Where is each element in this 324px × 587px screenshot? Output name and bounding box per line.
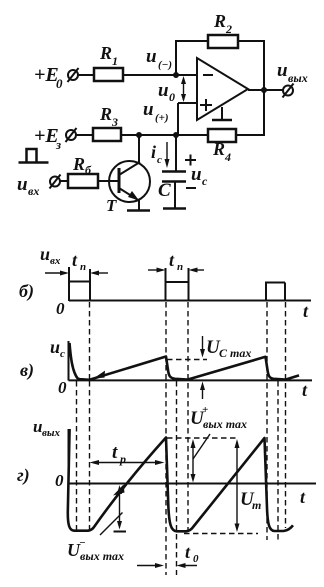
svg-text:R: R: [212, 139, 225, 159]
icon input pulse: [19, 149, 49, 163]
arrow u0 double: [181, 76, 186, 102]
dashed p2a: [165, 302, 167, 575]
wire feedback top right: [238, 40, 265, 42]
waveform uvyh: [68, 429, 293, 531]
axis v vertical: [68, 341, 70, 381]
wire base: [98, 180, 119, 182]
svg-text:m: m: [252, 498, 261, 512]
axis t v: [69, 379, 313, 381]
svg-text:4: 4: [224, 150, 231, 164]
node collector: [136, 132, 142, 138]
ground emitter: [127, 209, 150, 212]
node output: [261, 87, 267, 93]
arrow ic: [165, 142, 170, 168]
wire feedback top left: [175, 40, 208, 42]
svg-text:c: c: [157, 154, 162, 166]
wire collector vertical: [138, 135, 140, 164]
dashed p2b: [176, 381, 178, 575]
svg-text:R: R: [99, 43, 112, 63]
resistor R2: [208, 35, 238, 48]
arrow tp2 right: [189, 268, 205, 273]
dashed p3a: [266, 302, 268, 540]
wire feedback left vertical: [175, 41, 177, 75]
arrow tp1 right: [90, 271, 108, 276]
dashed p1a low: [89, 381, 91, 532]
node inverting input: [173, 72, 179, 78]
transistor emitter arrow: [128, 191, 139, 201]
dashed p1b low: [76, 381, 78, 532]
svg-text:вых: вых: [42, 427, 61, 439]
svg-text:р: р: [119, 452, 126, 466]
svg-text:c: c: [60, 348, 65, 360]
svg-text:2: 2: [225, 22, 232, 36]
svg-text:t: t: [112, 442, 118, 463]
leader Uvyhmax minus: [100, 513, 123, 536]
svg-text:u: u: [277, 60, 288, 81]
svg-text:б): б): [19, 281, 34, 302]
wire uvx terminal to Rb: [60, 180, 68, 182]
arrow Uvyhmax minus: [117, 485, 122, 530]
dashed p3c: [285, 302, 287, 528]
svg-text:(+): (+): [155, 112, 169, 124]
svg-text:в): в): [20, 360, 34, 381]
dashed p1a: [89, 302, 91, 380]
svg-text:0: 0: [58, 378, 67, 397]
svg-text:0: 0: [55, 471, 64, 490]
terminal output: [283, 84, 294, 98]
pulse 1: [68, 267, 90, 301]
op-amp U1 triangle: [197, 58, 248, 120]
arrow t0 right: [177, 563, 198, 568]
arrow tp2 left: [148, 268, 166, 273]
svg-text:вх: вх: [50, 255, 61, 267]
resistor R3: [93, 128, 121, 141]
pulse 2: [165, 268, 189, 301]
svg-text:u: u: [50, 337, 60, 357]
resistor Rb: [68, 174, 98, 188]
arrow Um: [235, 439, 240, 532]
transistor collector diagonal: [119, 162, 140, 175]
arrow tp1 left: [45, 271, 69, 276]
wire noninverting input horizontal: [178, 102, 197, 104]
svg-text:вых max: вых max: [80, 549, 124, 563]
svg-text:C: C: [158, 180, 171, 201]
terminal uvx: [50, 175, 61, 189]
wire bottom row: [121, 134, 208, 136]
svg-text:T: T: [106, 196, 117, 215]
svg-text:u: u: [191, 164, 202, 185]
svg-text:вх: вх: [28, 184, 39, 198]
svg-text:0: 0: [193, 553, 199, 565]
capacitor C plates: [162, 172, 186, 182]
wire cap top: [175, 135, 177, 171]
dashed bottom level g: [184, 533, 258, 535]
svg-text:R: R: [99, 104, 112, 124]
transistor emitter diagonal: [119, 188, 138, 200]
resistor R1: [94, 68, 123, 81]
transistor base bar: [118, 168, 121, 193]
leader Uvyhmax plus: [193, 434, 210, 459]
curve uc: [70, 343, 300, 380]
dashed peak level v: [167, 359, 207, 361]
svg-text:u: u: [146, 46, 157, 67]
op-amp ground: [212, 107, 232, 120]
svg-text:+: +: [202, 404, 208, 416]
svg-text:г): г): [17, 465, 30, 486]
arrow on ramp g: [113, 485, 125, 496]
axis g vertical: [68, 429, 70, 484]
svg-text:0: 0: [56, 76, 63, 91]
arrow on ramp v: [94, 371, 106, 379]
svg-text:з: з: [55, 137, 61, 152]
terminal E3: [66, 128, 77, 142]
svg-text:п: п: [80, 261, 86, 273]
arrow Ucmax bottom: [200, 382, 205, 400]
svg-text:вых: вых: [288, 71, 308, 85]
wire E3 to R3: [76, 134, 93, 136]
arrow tp double: [90, 460, 165, 465]
op-amp plus sign: [200, 99, 212, 111]
pulse 3: [265, 283, 285, 302]
dashed p3b: [277, 381, 279, 540]
axis t g: [69, 483, 317, 485]
wire R1 to op-amp inverting input: [123, 74, 197, 76]
arrow Uvyhmax plus: [191, 439, 196, 483]
svg-text:i: i: [151, 142, 156, 162]
wire output: [248, 89, 283, 91]
svg-text:u: u: [143, 99, 154, 120]
svg-text:вых max: вых max: [203, 417, 247, 431]
node capacitor: [173, 132, 179, 138]
terminal E0: [68, 68, 79, 82]
svg-text:б: б: [85, 163, 92, 177]
svg-text:0: 0: [169, 90, 175, 104]
ground capacitor: [163, 207, 186, 210]
svg-text:п: п: [177, 261, 183, 273]
wire emitter vertical: [138, 199, 140, 210]
arrow t0 left: [137, 563, 164, 568]
wire output right vertical: [263, 40, 265, 136]
svg-text:−: −: [79, 537, 86, 549]
wire cap bottom: [174, 182, 176, 208]
svg-text:c: c: [202, 174, 208, 188]
svg-text:R: R: [72, 154, 85, 174]
label minus cap: [186, 187, 196, 189]
svg-text:u: u: [158, 80, 169, 101]
svg-text:0: 0: [56, 299, 65, 318]
svg-text:1: 1: [112, 54, 118, 68]
svg-text:u: u: [40, 244, 50, 264]
tick Uvyhmax minus: [114, 531, 127, 533]
wire noninverting input vertical: [177, 103, 179, 135]
dashed peak level g: [167, 437, 236, 439]
svg-text:C max: C max: [219, 346, 251, 360]
resistor R4: [208, 129, 236, 142]
svg-text:u: u: [17, 174, 28, 195]
dashed p2c: [187, 302, 189, 530]
svg-text:3: 3: [111, 115, 118, 129]
svg-text:R: R: [213, 11, 226, 31]
axis t b: [69, 300, 311, 302]
label plus cap: [185, 155, 196, 166]
wire E0 to R1: [78, 74, 94, 76]
svg-text:(−): (−): [158, 59, 172, 71]
arrow Ucmax top: [200, 336, 205, 358]
wire R4 to output vertical: [236, 134, 265, 136]
transistor T circle: [109, 161, 150, 202]
op-amp minus sign: [203, 74, 213, 76]
